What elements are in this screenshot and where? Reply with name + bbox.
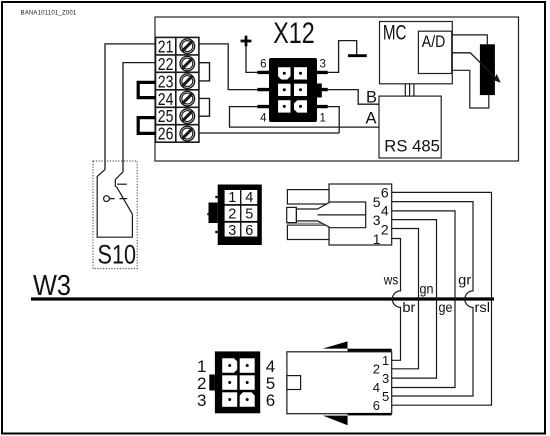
connector plug upper body <box>287 184 391 245</box>
wire + supply to X12 pin 6 <box>246 47 259 73</box>
wire gn pin3 <box>392 220 437 379</box>
wire rsl pin6 <box>392 192 492 405</box>
crimp shadow <box>287 223 325 226</box>
jumper link 24-25 (thin) <box>199 98 210 116</box>
connector plug lower body <box>287 352 392 414</box>
wire terminal 22 to S10 right <box>123 63 156 172</box>
svg-text:4: 4 <box>373 380 380 395</box>
svg-text:MC: MC <box>383 21 407 44</box>
upper socket pin numbers 1-6 <box>228 190 253 239</box>
cable W3 line <box>31 297 494 300</box>
terminal block 21-26 body <box>156 37 199 142</box>
connector X12 body <box>269 58 322 122</box>
switch S10 body <box>97 170 132 238</box>
svg-text:5: 5 <box>245 207 253 223</box>
svg-text:S10: S10 <box>98 240 137 270</box>
svg-text:4: 4 <box>381 202 389 218</box>
connector socket lower (6-pin grid) <box>209 351 260 413</box>
crimp contact <box>287 202 366 228</box>
svg-text:BANA101101_Z001: BANA101101_Z001 <box>21 11 77 17</box>
svg-text:5: 5 <box>373 194 381 210</box>
wire terminal 21 to S10 left <box>105 44 156 170</box>
svg-text:2: 2 <box>373 362 380 377</box>
svg-text:3: 3 <box>320 59 326 71</box>
svg-text:6: 6 <box>260 59 266 71</box>
lower plug notch <box>287 376 301 390</box>
insertion arrow bottom <box>323 413 392 425</box>
upper plug pin numbers <box>373 185 389 247</box>
svg-text:1: 1 <box>382 353 389 368</box>
wire terminal 21 to X12 pin 5 <box>199 44 259 90</box>
connector socket upper (6-pin grid) <box>207 185 261 246</box>
ground <box>348 54 367 57</box>
wire ws pin1 <box>392 239 401 361</box>
svg-text:2: 2 <box>381 222 389 238</box>
svg-text:B: B <box>366 89 377 107</box>
svg-text:A: A <box>366 110 377 128</box>
wire X12 pin 2 to RS485 B <box>327 90 380 105</box>
svg-text:br: br <box>402 299 415 315</box>
wire A/D to potentiometer top <box>452 35 488 44</box>
svg-text:6: 6 <box>373 398 380 413</box>
A/D box <box>418 31 451 73</box>
lower socket pin labels <box>197 357 275 410</box>
terminal screws <box>180 39 195 141</box>
jumper link 23-24 (thick) <box>138 82 155 97</box>
svg-text:W3: W3 <box>33 270 71 302</box>
terminal numbers 21-26 <box>158 36 174 143</box>
svg-text:2: 2 <box>228 207 236 223</box>
svg-text:1: 1 <box>373 231 381 247</box>
svg-text:A/D: A/D <box>422 33 446 51</box>
svg-text:3: 3 <box>197 391 206 410</box>
potentiometer R (sensor) <box>480 44 495 95</box>
svg-text:ws: ws <box>383 271 398 287</box>
svg-text:26: 26 <box>158 124 174 144</box>
wiper arrow from A/D <box>452 53 501 83</box>
X12 latch tab <box>317 84 322 98</box>
svg-text:6: 6 <box>266 391 275 410</box>
wire terminal 26 to node <box>199 132 339 134</box>
wire X12 pin 1 to node A <box>327 107 340 133</box>
svg-text:gn: gn <box>420 281 434 297</box>
switch S10 dashed box <box>93 161 137 269</box>
lower plug pin numbers <box>373 353 389 413</box>
wire gr pin5 <box>392 202 473 396</box>
X12 pin stubs <box>257 72 327 106</box>
insertion arrow top <box>323 341 392 351</box>
plus supply symbol <box>241 36 252 47</box>
svg-text:3: 3 <box>382 371 389 386</box>
svg-text:1: 1 <box>228 190 236 206</box>
svg-text:6: 6 <box>381 185 389 201</box>
wire br pin2 <box>392 229 419 369</box>
svg-text:6: 6 <box>245 223 253 239</box>
wire X12 pin 4 to RS485 A <box>230 107 380 128</box>
wire X12 pin 3 to ground <box>327 41 357 73</box>
MC box <box>380 22 453 84</box>
svg-text:gr: gr <box>458 271 471 287</box>
bus MC to RS485 <box>405 84 414 96</box>
wire A/D to potentiometer bottom <box>452 70 489 108</box>
jumper link 25-26 (thick) <box>138 118 155 134</box>
outer box (device boundary) <box>155 17 519 161</box>
wire ge pin4 <box>392 211 455 388</box>
svg-text:4: 4 <box>245 190 253 206</box>
RS 485 box <box>379 96 441 158</box>
svg-text:RS 485: RS 485 <box>384 138 440 156</box>
svg-text:4: 4 <box>260 113 267 125</box>
svg-text:ge: ge <box>439 299 453 315</box>
svg-text:1: 1 <box>320 113 326 125</box>
svg-text:3: 3 <box>228 223 236 239</box>
svg-text:5: 5 <box>382 389 389 404</box>
svg-text:3: 3 <box>373 212 381 228</box>
jumper link 22-23 (thin) <box>199 63 210 81</box>
svg-text:rsl: rsl <box>475 299 491 315</box>
svg-text:X12: X12 <box>273 17 315 50</box>
